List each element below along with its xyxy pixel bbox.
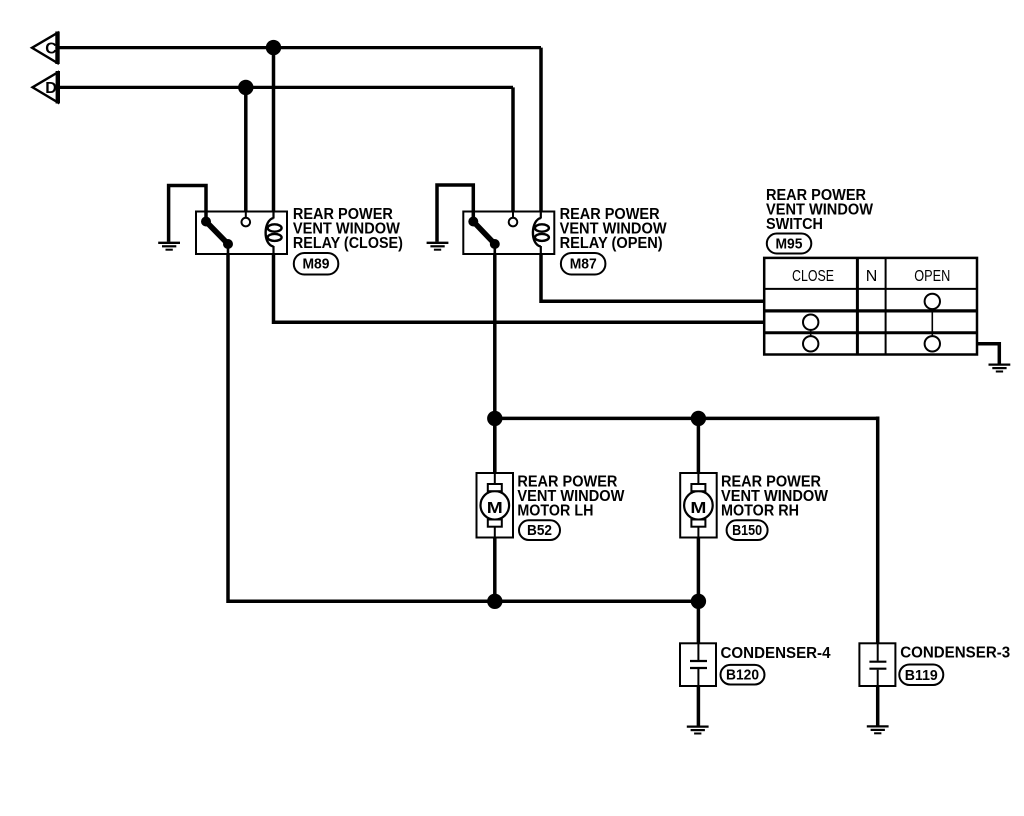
wire relay M89 coil to switch CLOSE row <box>274 254 765 322</box>
relay M89 label <box>293 206 403 252</box>
svg-text:CLOSE: CLOSE <box>792 268 834 285</box>
connector id B119 <box>899 665 943 686</box>
relay U1 box (M89) <box>196 212 287 255</box>
junction motor bus at motor RH <box>691 411 706 426</box>
ground G3 (switch M95) <box>989 365 1011 372</box>
connector id M95 <box>767 234 812 254</box>
condenser-4 B120 capacitor <box>690 643 707 686</box>
motor B52 internals <box>481 473 510 538</box>
connector id B52 <box>519 520 560 540</box>
relay M87 switch lead inside box <box>493 244 496 254</box>
wire motor RH to condenser-4 <box>697 601 701 643</box>
junction on wire C <box>266 40 281 55</box>
wire motor bus horizontal <box>495 417 878 421</box>
junction lower bus at motor RH <box>691 594 706 609</box>
svg-text:C: C <box>45 40 57 57</box>
relay M89 coil <box>266 212 282 255</box>
svg-text:OPEN: OPEN <box>914 268 950 285</box>
connector id M89 <box>294 253 339 275</box>
ground G1 (relay M89) <box>158 243 180 250</box>
svg-text:CONDENSER-4: CONDENSER-4 <box>721 645 831 662</box>
connector C <box>32 32 58 65</box>
wire condenser-3 to ground <box>876 686 880 726</box>
ground G4 (condenser-4) <box>687 727 709 734</box>
svg-text:M89: M89 <box>303 256 330 273</box>
junction on wire D <box>238 80 253 95</box>
wire relay M87 ground lead <box>437 185 473 242</box>
svg-text:M95: M95 <box>776 236 803 253</box>
motor B150 label <box>721 473 829 519</box>
relay M89 switch lead inside box <box>227 244 230 254</box>
wire D drop to relay M87 terminal <box>511 87 515 212</box>
junction motor bus at motor LH <box>487 411 502 426</box>
svg-text:M87: M87 <box>570 256 597 273</box>
relay M87 coil <box>533 212 549 255</box>
junction lower bus at motor LH <box>487 594 502 609</box>
switch M95 contact OPEN row3 <box>925 336 940 351</box>
svg-text:CONDENSER-3: CONDENSER-3 <box>900 645 1010 662</box>
wire motor LH top lead <box>493 418 497 473</box>
wire C horizontal <box>58 46 542 49</box>
relay M87 terminal circle <box>509 212 518 227</box>
wire C drop to relay M87 coil <box>539 48 543 213</box>
svg-text:MOTOR RH: MOTOR RH <box>721 502 799 519</box>
condenser-4 B120 box <box>680 643 716 686</box>
relay U2 box (M87) <box>463 212 554 255</box>
svg-text:M: M <box>487 500 503 517</box>
wire D horizontal <box>58 86 513 89</box>
switch M95 label <box>766 187 874 233</box>
switch M95 contact CLOSE row3 <box>803 336 818 351</box>
condenser-3 B119 capacitor <box>869 643 886 686</box>
wire relay M89 switch output down <box>228 254 698 601</box>
svg-text:B150: B150 <box>732 522 762 539</box>
switch M95 table frame <box>764 258 977 355</box>
relay M89 terminal circle <box>242 212 251 227</box>
svg-text:M: M <box>690 500 706 517</box>
switch M95 contact CLOSE row2 <box>803 315 818 330</box>
svg-text:B119: B119 <box>905 667 938 684</box>
connector id B150 <box>727 520 768 540</box>
motor B150 internals <box>684 473 713 538</box>
svg-text:N: N <box>866 268 878 285</box>
condenser-3 B119 box <box>859 643 895 686</box>
svg-text:RELAY (CLOSE): RELAY (CLOSE) <box>293 235 403 252</box>
wire condenser-4 to ground <box>697 686 701 726</box>
wire motor RH top lead <box>697 418 701 473</box>
svg-text:SWITCH: SWITCH <box>766 216 823 233</box>
wire motor bus to condenser-3 <box>876 417 880 644</box>
relay M87 switch arm <box>468 217 500 250</box>
wire motor RH bottom lead <box>697 538 701 602</box>
relay M89 switch arm <box>201 217 233 250</box>
svg-text:B120: B120 <box>726 667 759 684</box>
motor B52 label <box>517 473 625 519</box>
svg-text:B52: B52 <box>527 522 552 539</box>
wire C drop to relay M89 coil <box>272 48 276 213</box>
switch M95 contact link CLOSE column <box>810 324 812 342</box>
switch M95 contact link OPEN column <box>931 303 933 342</box>
svg-text:MOTOR LH: MOTOR LH <box>517 502 593 519</box>
wire D drop to relay M89 terminal <box>244 87 248 212</box>
wire relay M87 switch output down to motor bus <box>493 254 497 473</box>
ground G2 (relay M87) <box>427 243 449 250</box>
wire relay M89 ground lead <box>169 186 206 242</box>
svg-text:D: D <box>45 80 57 97</box>
connector id M87 <box>561 253 606 275</box>
connector id B120 <box>721 665 765 685</box>
motor B150 box <box>680 473 717 538</box>
wire relay M87 coil to switch OPEN row <box>541 254 764 301</box>
wire motor LH bottom lead <box>493 538 497 602</box>
svg-text:RELAY (OPEN): RELAY (OPEN) <box>560 235 663 252</box>
wire switch M95 to ground <box>977 344 999 364</box>
motor B52 box <box>477 473 514 538</box>
relay M87 label <box>560 206 668 252</box>
switch M95 contact OPEN row1 <box>925 294 940 309</box>
ground G5 (condenser-3) <box>867 726 889 733</box>
connector D <box>33 71 58 104</box>
